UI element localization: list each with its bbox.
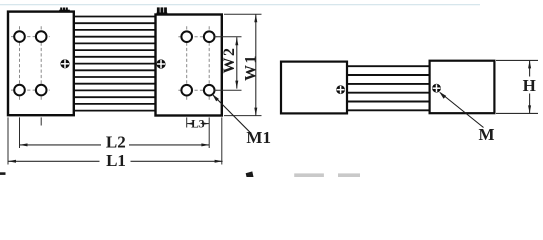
- svg-text:M: M: [478, 125, 494, 144]
- sense screw right block (side view): [432, 84, 441, 93]
- left block (side view): [281, 62, 347, 114]
- right block (side view): [430, 61, 495, 113]
- scan artifact bottom-left: [0, 172, 6, 175]
- faint blue scan line at top: [0, 4, 480, 5]
- sense terminal tab on left block: [59, 8, 70, 13]
- svg-text:M1: M1: [246, 128, 271, 147]
- dashed centerlines, left block rows: [11, 26, 50, 100]
- svg-text:L3: L3: [191, 119, 205, 131]
- svg-text:W1: W1: [242, 54, 259, 81]
- sense terminal tab on right block: [157, 7, 168, 15]
- dimension W2 extension lines: [214, 37, 242, 90]
- right terminal block (top view): [156, 15, 222, 116]
- resistive strips (side view): [347, 66, 430, 110]
- scan artifact grey bar 2: [338, 173, 360, 177]
- sense screw left block (top view): [60, 59, 69, 68]
- sense screw right block (top view): [156, 59, 165, 68]
- extension lines below blocks: [8, 117, 222, 164]
- mounting holes left block: [14, 31, 46, 95]
- leader and label M: [440, 93, 484, 128]
- dimension L2: [20, 144, 210, 146]
- dimension L1: [8, 160, 223, 162]
- svg-text:H: H: [523, 76, 536, 95]
- resistive strips between blocks (top view): [75, 17, 156, 111]
- mounting holes right block: [181, 31, 214, 95]
- svg-text:L1: L1: [106, 151, 126, 170]
- dimension H: [529, 60, 531, 113]
- sense screw left block (side view): [336, 85, 345, 94]
- scan artifact grey bar 1: [294, 173, 324, 177]
- dimension W2: [236, 37, 238, 88]
- dashed centerlines, right block rows: [178, 26, 217, 100]
- scan artifact black glyph bottom-center: [246, 171, 254, 177]
- left terminal block (top view): [8, 12, 74, 116]
- dimension W1 extension lines: [224, 14, 262, 115]
- svg-text:W2: W2: [221, 47, 238, 74]
- svg-text:L2: L2: [106, 132, 126, 151]
- dimension L3: [187, 123, 210, 125]
- dimension W1: [255, 14, 257, 115]
- dimension H extension lines: [496, 60, 538, 113]
- leader and label M1: [213, 95, 250, 133]
